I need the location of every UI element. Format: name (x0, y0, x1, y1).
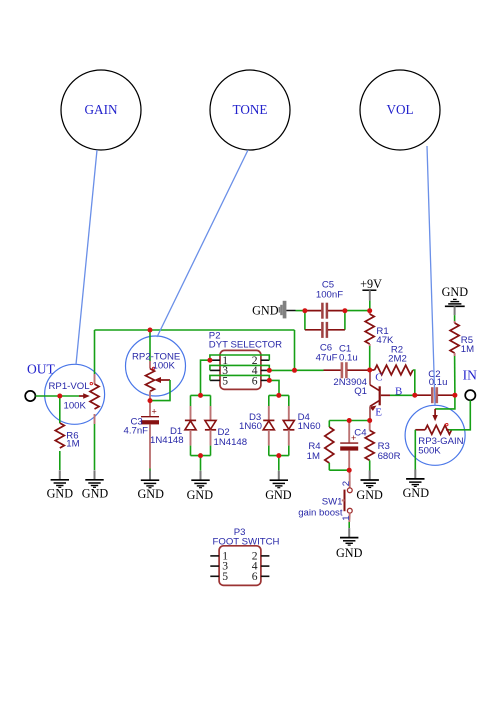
diode D3 (239, 395, 274, 455)
svg-text:SW1: SW1 (322, 497, 343, 508)
wire D1-D2 to ground (200, 456, 202, 471)
wire pin4 to C1 node (269, 369, 294, 371)
ground left of C5 (252, 301, 295, 319)
diode D4 (283, 395, 320, 455)
pin 6 stub (261, 379, 269, 381)
svg-text:Q1: Q1 (354, 386, 367, 397)
svg-text:5: 5 (222, 374, 228, 387)
wire RP1 top to bus (94, 330, 96, 374)
wire emitter rail (329, 420, 369, 422)
power +9V (360, 277, 382, 300)
svg-text:GND: GND (265, 488, 292, 502)
svg-text:RP1-VOL: RP1-VOL (49, 381, 91, 392)
pin 4 stub (261, 369, 269, 371)
wire C2 node to RP3 wiper (435, 395, 455, 409)
wire C6 loop left (304, 311, 306, 330)
ground below R6 (47, 470, 74, 500)
ground below C3 (137, 471, 164, 502)
svg-text:100K: 100K (153, 361, 176, 372)
wire base to C2 (390, 394, 415, 396)
junction pin4 node (292, 368, 297, 373)
wire C6 loop right (344, 311, 346, 330)
capacitor C6 (305, 322, 345, 363)
junction C5 left (302, 308, 307, 313)
resistor R4 (307, 421, 334, 471)
svg-text:1N4148: 1N4148 (214, 437, 248, 448)
potentiometer RP1-VOL (49, 374, 100, 424)
svg-text:E: E (375, 407, 382, 419)
pot circle RP1 (45, 364, 105, 424)
junction C4 bottom (347, 468, 352, 473)
junction D1-D2 bottom (198, 453, 203, 458)
wire R2 to base node (413, 370, 415, 395)
svg-text:2: 2 (341, 481, 352, 486)
svg-text:+: + (152, 407, 157, 417)
wire D3-D4 bottom rail (269, 455, 289, 457)
svg-text:1: 1 (341, 515, 352, 520)
pin 5 stub (210, 379, 220, 381)
knob GAIN (61, 70, 141, 150)
wire D3-D4 top rail (269, 394, 289, 396)
svg-text:+9V: +9V (360, 277, 382, 291)
junction D3-D4 top (276, 393, 281, 398)
connector P2 (209, 331, 282, 390)
wire OUT to node A (36, 395, 60, 397)
pot circle RP2 (126, 336, 186, 396)
junction collector node (367, 368, 372, 373)
junction pin 4 (267, 368, 272, 373)
svg-text:1N60: 1N60 (239, 421, 262, 432)
svg-text:1M: 1M (461, 344, 474, 355)
svg-text:1N4148: 1N4148 (150, 435, 184, 446)
svg-text:4.7nF: 4.7nF (124, 426, 149, 437)
svg-text:GND: GND (403, 486, 430, 500)
svg-text:IN: IN (463, 367, 477, 382)
wire R1 to collector node (369, 346, 371, 370)
link line VOL to RP3 (427, 146, 435, 405)
svg-text:6: 6 (252, 374, 258, 387)
link line GAIN to RP1 (76, 150, 97, 365)
wire bus down to RP2 (149, 330, 151, 361)
pot circle RP3 (405, 405, 465, 465)
wire ground to C5 node (296, 310, 305, 312)
connector P3 (210, 527, 279, 586)
pin 1 stub (210, 359, 220, 361)
junction 9V node (367, 308, 372, 313)
capacitor C4 (340, 421, 367, 471)
knob TONE (210, 70, 290, 150)
svg-text:100K: 100K (64, 401, 87, 412)
junction emitter node (367, 418, 372, 423)
pin 3 stub (210, 369, 220, 371)
wire 9V stem (369, 301, 371, 311)
svg-text:5: 5 (222, 570, 228, 583)
svg-text:GND: GND (137, 487, 164, 501)
capacitor C5 (305, 280, 345, 319)
ground below R3 (356, 471, 383, 502)
svg-text:DYT SELECTOR: DYT SELECTOR (209, 340, 282, 351)
junction pin 6 (267, 378, 272, 383)
svg-text:0.1u: 0.1u (429, 377, 448, 388)
ground above R5 (442, 285, 469, 315)
pin 2 stub (261, 359, 269, 361)
svg-text:C: C (375, 371, 382, 383)
wire RP2 wiper loop (150, 380, 170, 401)
svg-text:GND: GND (187, 488, 214, 502)
svg-text:500K: 500K (418, 446, 441, 457)
junction C4 top (347, 418, 352, 423)
wire RP3 left to ground (414, 430, 416, 470)
transistor Q1 (333, 370, 402, 421)
svg-text:GND: GND (356, 488, 383, 502)
svg-text:GND: GND (252, 304, 279, 318)
wire D1-D2 top rail (191, 394, 211, 396)
svg-text:2M2: 2M2 (388, 354, 407, 365)
svg-text:47uF: 47uF (316, 352, 338, 363)
svg-text:1N60: 1N60 (298, 421, 321, 432)
junction C2 right (452, 393, 457, 398)
wire R4 to C4 bottom (329, 469, 349, 471)
svg-text:1M: 1M (307, 451, 320, 462)
junction C5 right (342, 308, 347, 313)
svg-text:GAIN: GAIN (85, 102, 118, 117)
svg-text:100nF: 100nF (316, 290, 343, 301)
wire pin4 node to C1 (295, 369, 324, 371)
resistor R1 (365, 311, 394, 346)
wire D1-D2 bottom rail (191, 455, 211, 457)
capacitor C3 (124, 401, 160, 469)
wire staple pins 5-6 (210, 375, 269, 380)
wire RP1 bottom to ground (94, 424, 96, 470)
svg-text:TONE: TONE (233, 102, 268, 117)
wire SW1 to ground (348, 522, 350, 528)
wire staple pins 1-2 (210, 355, 269, 360)
svg-text:C4: C4 (354, 427, 367, 438)
diode D2 (205, 395, 247, 455)
ground below D3-D4 (265, 471, 292, 502)
wire C3 to ground (149, 469, 151, 472)
svg-text:gain boost: gain boost (298, 507, 343, 518)
potentiometer RP3-GAIN (415, 409, 463, 457)
wire D3-D4 to ground (278, 456, 280, 471)
wire bus down to pin4 node (294, 330, 296, 370)
wire RP3 right to IN (449, 400, 470, 430)
ground below RP1 (82, 470, 109, 500)
ground below SW1 (336, 528, 363, 560)
svg-text:GND: GND (82, 487, 109, 501)
svg-text:GND: GND (442, 285, 469, 299)
junction D3-D4 bottom (276, 453, 281, 458)
wire pin1 to D1-D2 node (201, 360, 210, 395)
wire staple pins 3-4 (210, 365, 269, 370)
wire C5 node to 9V node (345, 310, 370, 312)
svg-text:VOL: VOL (386, 102, 413, 117)
potentiometer RP2-TONE (132, 351, 180, 400)
svg-text:OUT: OUT (27, 362, 55, 377)
resistor R3 (365, 421, 400, 471)
terminal OUT (25, 362, 55, 402)
svg-text:6: 6 (252, 570, 258, 583)
svg-text:680R: 680R (378, 451, 401, 462)
wire pin6 to D3-D4 node (269, 380, 279, 395)
svg-text:0.1u: 0.1u (339, 353, 358, 364)
junction RP2 bottom (148, 398, 153, 403)
capacitor C1 (324, 344, 370, 379)
svg-text:FOOT SWITCH: FOOT SWITCH (213, 537, 280, 548)
svg-text:GND: GND (336, 546, 363, 560)
junction base node (412, 393, 417, 398)
svg-text:1M: 1M (66, 439, 79, 450)
knob VOL (360, 70, 440, 150)
junction D1-D2 top (198, 393, 203, 398)
svg-text:GND: GND (47, 487, 74, 501)
node A junction (57, 394, 62, 399)
resistor R6 (55, 396, 79, 470)
terminal IN (463, 367, 477, 400)
resistor R5 (450, 315, 474, 356)
link line TONE to RP2 (157, 150, 248, 337)
junction top bus at RP2 (148, 328, 153, 333)
switch SW1 (298, 470, 352, 522)
ground below D1-D2 (187, 471, 214, 502)
diode D1 (150, 395, 196, 455)
wire top bus horizontal (95, 329, 295, 331)
ground below RP3 (403, 469, 430, 500)
junction pin 1 (207, 358, 212, 363)
wire R5 to C2 node (454, 356, 456, 395)
resistor R2 (370, 345, 413, 375)
capacitor C2 (415, 369, 455, 403)
